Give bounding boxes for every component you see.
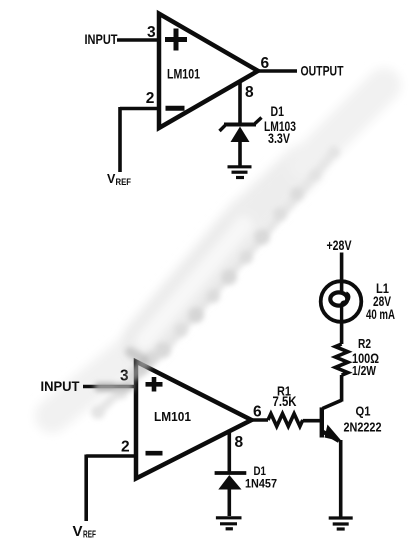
svg-text:V: V (73, 523, 83, 540)
smudge lower-edge blotches (91, 146, 340, 419)
svg-text:D1: D1 (271, 104, 285, 119)
zener diode D1 LM103 (220, 118, 262, 143)
svg-text:2: 2 (146, 90, 155, 107)
op-amp U2 LM101 (bottom) (136, 362, 252, 479)
svg-text:8: 8 (235, 434, 244, 451)
wire Vref horizontal (bottom) (86, 454, 134, 458)
wire input to pin 3 (bottom) (83, 385, 134, 389)
wire pin 6 to R1 (249, 418, 268, 422)
lamp L1 28V 40mA (321, 281, 362, 322)
wire output (top) (256, 69, 297, 73)
wire R2 to lamp (340, 322, 344, 344)
svg-text:40 mA: 40 mA (366, 307, 395, 322)
label VREF (bottom) (73, 523, 97, 541)
wire collector up to R2 (340, 375, 344, 402)
ground (bottom D1) (216, 518, 242, 529)
diode D1 1N457 (215, 473, 247, 490)
svg-text:3: 3 (147, 24, 156, 41)
svg-text:REF: REF (116, 177, 132, 187)
svg-text:7.5K: 7.5K (273, 394, 297, 409)
transistor Q1 2N2222 (322, 400, 342, 441)
scan smudge band (artifact, under ink) (52, 85, 384, 416)
svg-text:REF: REF (83, 530, 96, 541)
wire R1 to base (303, 419, 320, 423)
op-amp U1 LM101 (top) (159, 14, 258, 128)
wire input to pin 3 (top) (117, 38, 157, 42)
resistor R1 7.5K (268, 414, 303, 427)
wire pin 8 to zener (top) (238, 81, 242, 124)
wire Vref vertical (bottom) (84, 455, 88, 522)
scan smudge overlay patches (artifact, over ink) (96, 352, 152, 392)
wire Vref vertical (top) (118, 107, 122, 172)
wire zener to ground (top) (238, 141, 242, 166)
svg-text:INPUT: INPUT (41, 378, 80, 394)
plus sign (bottom op-amp) (146, 377, 163, 392)
svg-text:6: 6 (261, 55, 270, 72)
resistor R2 100ohm (335, 344, 348, 375)
ground (emitter) (329, 518, 353, 529)
wire +28V supply (340, 253, 344, 284)
wire D1 to ground (bottom) (228, 488, 232, 516)
svg-text:OUTPUT: OUTPUT (301, 63, 344, 79)
ground (top) (228, 167, 252, 178)
wire pin 8 to D1 (bottom) (228, 430, 232, 473)
svg-text:R2: R2 (358, 336, 371, 351)
label VREF (top) (107, 172, 131, 187)
svg-text:+28V: +28V (327, 238, 352, 253)
svg-text:LM101: LM101 (154, 409, 191, 424)
svg-text:6: 6 (253, 404, 262, 421)
minus sign (bottom op-amp) (146, 451, 163, 456)
plus sign (top op-amp) (165, 29, 187, 51)
wire Vref horizontal (top) (120, 107, 157, 111)
minus sign (top op-amp) (166, 106, 185, 111)
svg-text:LM101: LM101 (167, 66, 200, 82)
svg-text:2N2222: 2N2222 (344, 420, 382, 435)
svg-text:3.3V: 3.3V (268, 131, 290, 146)
wire emitter to ground (339, 440, 343, 517)
svg-text:Q1: Q1 (356, 404, 371, 419)
svg-text:1/2W: 1/2W (352, 363, 377, 378)
svg-text:1N457: 1N457 (245, 477, 277, 491)
svg-text:2: 2 (121, 439, 130, 456)
svg-text:INPUT: INPUT (85, 31, 118, 47)
svg-text:8: 8 (245, 84, 254, 101)
